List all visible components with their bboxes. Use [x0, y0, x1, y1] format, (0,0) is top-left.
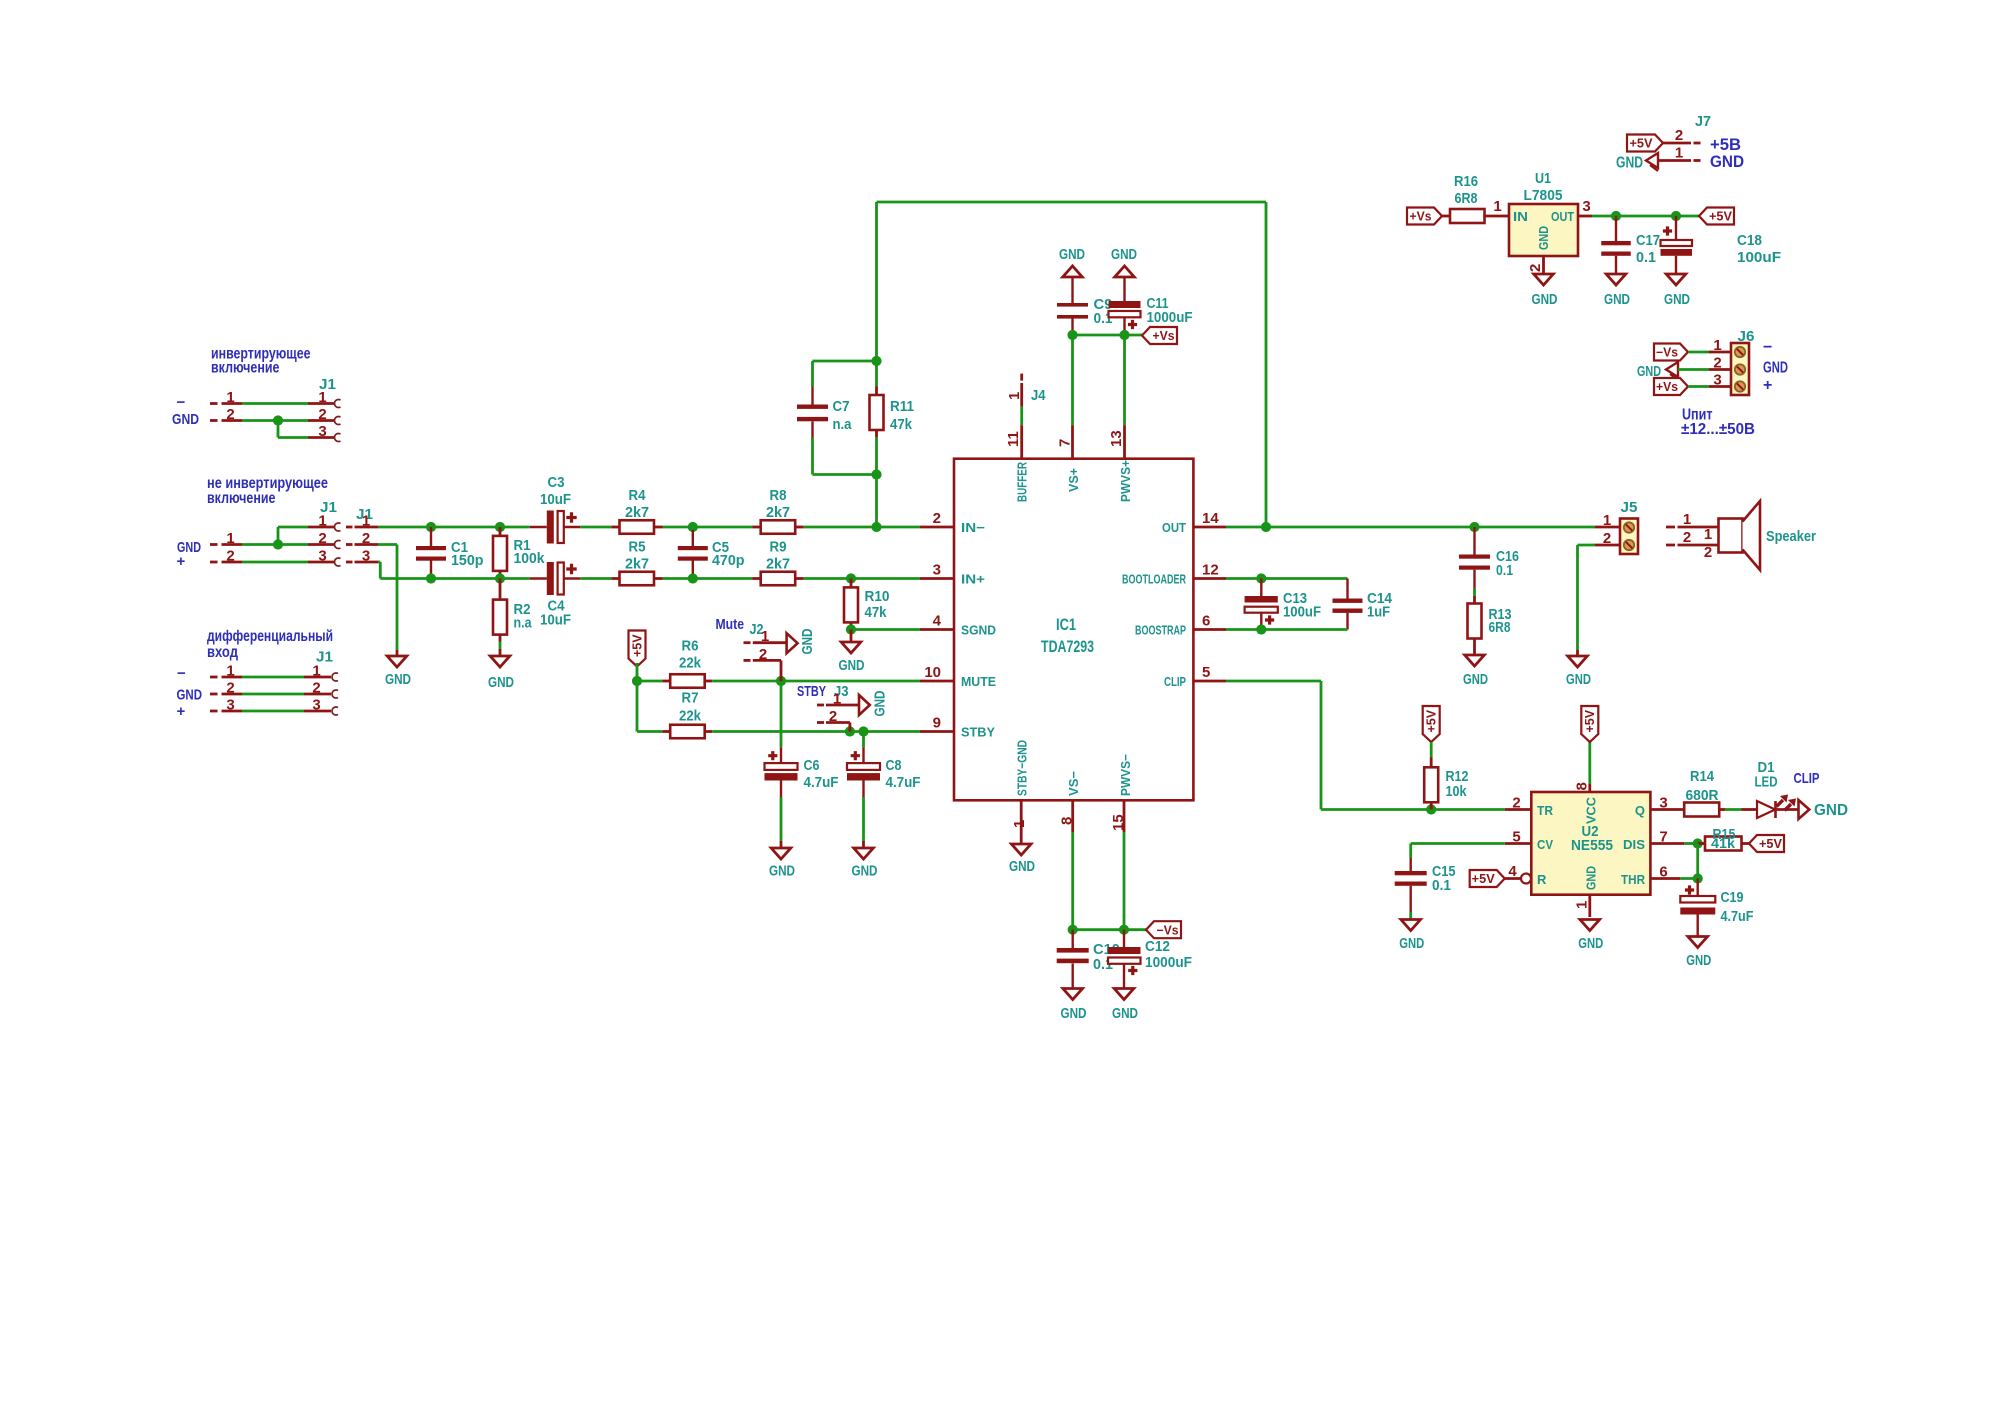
svg-text:470p: 470p	[712, 552, 745, 569]
svg-text:R10: R10	[865, 588, 890, 605]
text инвертирующее включение	[211, 346, 311, 377]
pin 3 OUT wire	[1578, 198, 1699, 216]
junction	[1068, 925, 1078, 935]
pin 2 TR	[1505, 795, 1532, 812]
ground arrow	[787, 628, 816, 654]
capacitor C19	[1680, 879, 1753, 937]
svg-text:PWVS+: PWVS+	[1118, 460, 1133, 502]
pin 7 DIS	[1650, 829, 1697, 846]
ground arrow	[859, 690, 889, 716]
svg-text:n.a: n.a	[514, 615, 532, 632]
svg-text:DIS: DIS	[1623, 837, 1645, 852]
svg-text:2: 2	[318, 530, 326, 547]
power flag +5V	[1749, 835, 1784, 852]
pin 4 R inversion bubble	[1505, 863, 1531, 884]
ground arrow	[1637, 362, 1678, 380]
svg-text:+Vs: +Vs	[1410, 210, 1432, 224]
svg-text:8: 8	[1574, 782, 1591, 790]
junction	[1693, 873, 1703, 883]
connector J1 male pin2	[346, 543, 378, 546]
ground	[1111, 246, 1137, 301]
resistor R15	[1698, 826, 1749, 851]
label GND	[1710, 152, 1744, 171]
svg-text:TR: TR	[1537, 803, 1554, 818]
label plus	[177, 703, 186, 720]
power flag -Vs	[1654, 344, 1688, 361]
svg-text:100uF: 100uF	[1283, 604, 1321, 621]
resistor R5	[611, 539, 662, 586]
svg-text:2: 2	[1603, 530, 1611, 547]
svg-text:1: 1	[1683, 511, 1691, 528]
text дифференциальный вход	[207, 628, 333, 661]
svg-text:−: −	[177, 394, 186, 411]
power flag +5V	[629, 631, 646, 667]
svg-text:1: 1	[226, 663, 234, 680]
capacitor C3	[530, 474, 580, 544]
svg-text:GND: GND	[1763, 360, 1788, 377]
svg-text:13: 13	[1108, 430, 1125, 447]
svg-text:J4: J4	[1031, 387, 1046, 404]
svg-text:R14: R14	[1690, 768, 1714, 785]
svg-text:GND: GND	[1463, 671, 1488, 688]
pin 6 stub	[1135, 613, 1226, 638]
junction	[846, 624, 856, 634]
label minus	[177, 665, 186, 682]
ground	[1059, 246, 1085, 303]
connector J6 pin 2	[1678, 355, 1731, 372]
pin number 3	[318, 548, 326, 565]
svg-text:R: R	[1537, 872, 1547, 887]
svg-text:1000uF: 1000uF	[1147, 309, 1193, 326]
svg-text:Q: Q	[1635, 803, 1645, 818]
connector J6 pin 1	[1688, 337, 1731, 354]
junction	[1261, 522, 1271, 532]
svg-text:GND: GND	[852, 863, 878, 880]
capacitor C1	[416, 527, 484, 579]
ground	[1686, 937, 1711, 970]
svg-text:LED: LED	[1755, 774, 1778, 791]
power flag +5V	[1470, 870, 1505, 887]
svg-text:10uF: 10uF	[540, 612, 571, 629]
ground	[1061, 989, 1087, 1023]
junction	[688, 522, 698, 532]
pin number 3	[226, 697, 234, 714]
pin number 1	[761, 628, 769, 645]
svg-text:C19: C19	[1721, 889, 1744, 906]
svg-text:STBY: STBY	[961, 725, 995, 740]
op-amp IC1 TDA7293 body	[954, 459, 1193, 801]
svg-text:−: −	[177, 665, 186, 682]
resistor R8	[752, 487, 804, 534]
capacitor C9	[1057, 296, 1113, 335]
ground	[1399, 920, 1424, 953]
svg-text:+5V: +5V	[630, 634, 644, 657]
svg-text:GND: GND	[769, 863, 795, 880]
wire IN- row left	[431, 526, 530, 529]
connector J1 male pin3	[346, 561, 378, 564]
svg-text:GND: GND	[1532, 291, 1558, 308]
capacitor C13	[1245, 579, 1321, 630]
svg-text:IN+: IN+	[961, 572, 985, 587]
pin number 2	[312, 680, 320, 697]
svg-text:n.a: n.a	[833, 416, 852, 433]
svg-text:включение: включение	[211, 360, 280, 377]
svg-text:GND: GND	[1686, 952, 1711, 969]
svg-text:+5V: +5V	[1425, 709, 1439, 732]
resistor R16	[1442, 173, 1509, 223]
svg-text:47k: 47k	[865, 604, 887, 621]
wire	[637, 681, 662, 732]
speaker SP1	[1719, 501, 1817, 570]
svg-text:10: 10	[924, 664, 941, 681]
svg-text:2: 2	[1683, 529, 1691, 546]
pin number 2	[226, 406, 234, 423]
svg-text:9: 9	[933, 715, 941, 732]
pin number 1	[833, 691, 841, 708]
power flag +5V	[1423, 706, 1440, 742]
capacitor C17	[1601, 216, 1660, 274]
svg-text:10uF: 10uF	[540, 491, 571, 508]
capacitor C7	[797, 361, 852, 475]
svg-text:2: 2	[1512, 795, 1520, 812]
svg-text:C18: C18	[1737, 232, 1762, 249]
svg-text:вход: вход	[207, 644, 238, 661]
svg-text:GND: GND	[1604, 291, 1630, 308]
label CLIP	[1794, 770, 1820, 787]
junction	[1671, 211, 1681, 221]
wire bootloader	[1226, 577, 1348, 580]
svg-text:GND: GND	[1584, 866, 1599, 890]
ground	[1112, 989, 1138, 1023]
ground	[1009, 844, 1035, 875]
svg-text:+5V: +5V	[1709, 210, 1733, 224]
pin 6 THR	[1650, 864, 1697, 881]
svg-text:100k: 100k	[514, 550, 545, 567]
svg-text:3: 3	[1713, 372, 1721, 389]
svg-text:C8: C8	[886, 757, 902, 774]
ground	[488, 656, 514, 691]
svg-text:10k: 10k	[1446, 783, 1467, 800]
ground	[852, 848, 878, 880]
label STBY	[797, 683, 826, 700]
pin 2 GND	[1527, 256, 1544, 274]
svg-text:Speaker: Speaker	[1766, 528, 1816, 545]
resistor R7	[662, 690, 712, 739]
svg-text:J7: J7	[1695, 113, 1711, 130]
junction	[1469, 522, 1479, 532]
power flag -Vs	[1146, 921, 1181, 938]
pin number 2	[829, 708, 837, 725]
wire	[278, 421, 308, 438]
svg-text:+5V: +5V	[1759, 837, 1783, 851]
svg-text:±12...±50В: ±12...±50В	[1681, 421, 1755, 438]
svg-text:GND: GND	[1566, 671, 1591, 688]
wire	[813, 437, 877, 527]
svg-text:GND: GND	[1112, 1005, 1138, 1022]
connector J6 pin 3	[1688, 372, 1731, 389]
svg-text:GND: GND	[1578, 935, 1603, 952]
svg-text:1: 1	[1704, 526, 1712, 543]
capacitor C11	[1109, 295, 1193, 335]
capacitor C4	[530, 562, 580, 629]
svg-text:2: 2	[829, 708, 837, 725]
pin 4 stub	[920, 613, 996, 638]
wire boostrap	[1226, 628, 1348, 631]
pin 15 PWVS-	[1110, 754, 1133, 930]
svg-text:2: 2	[226, 406, 234, 423]
svg-text:C17: C17	[1636, 232, 1660, 249]
pin 1 GND	[1574, 895, 1591, 917]
wire	[580, 577, 611, 580]
svg-text:1: 1	[226, 530, 234, 547]
connector J1 label	[319, 376, 336, 393]
connector J7 pin 1	[1658, 145, 1701, 162]
wire	[1696, 844, 1699, 879]
svg-text:BUFFER: BUFFER	[1015, 462, 1030, 502]
svg-text:+Vs: +Vs	[1153, 329, 1175, 343]
capacitor C16	[1459, 527, 1519, 604]
wire	[1576, 545, 1579, 656]
connector J1 pin 2 wire	[210, 690, 338, 698]
svg-text:CLIP: CLIP	[1164, 674, 1186, 689]
svg-text:+5V: +5V	[1630, 137, 1654, 151]
svg-text:+: +	[177, 553, 186, 570]
ground	[1532, 274, 1558, 308]
capacitor C5	[678, 530, 745, 579]
svg-text:4: 4	[1508, 863, 1517, 880]
svg-text:1: 1	[318, 513, 326, 530]
regulator U1 L7805	[1509, 170, 1578, 256]
junction	[1256, 624, 1266, 634]
svg-text:1: 1	[1675, 145, 1683, 162]
connector J1 pin 1 wire	[210, 673, 338, 681]
svg-text:GND: GND	[1059, 246, 1085, 263]
junction	[495, 573, 505, 583]
svg-text:1: 1	[1603, 512, 1611, 529]
svg-text:THR: THR	[1621, 872, 1646, 887]
male stub row2	[210, 543, 278, 546]
wire CLIP	[1226, 681, 1505, 810]
svg-text:−Vs: −Vs	[1157, 923, 1179, 937]
pin number 3	[318, 423, 326, 440]
svg-text:−Vs: −Vs	[1656, 346, 1678, 360]
svg-text:1: 1	[1493, 198, 1501, 215]
svg-text:1: 1	[362, 513, 370, 530]
power flag +Vs	[1654, 378, 1688, 395]
svg-text:TDA7293: TDA7293	[1041, 638, 1094, 656]
svg-text:+5V: +5V	[1472, 872, 1496, 886]
svg-text:R8: R8	[770, 487, 787, 504]
junction	[1119, 925, 1129, 935]
junction	[1119, 330, 1129, 340]
svg-text:GND: GND	[172, 411, 199, 428]
svg-text:R7: R7	[682, 690, 699, 707]
label Mute	[716, 616, 745, 633]
wire IN+ row left	[431, 577, 530, 580]
pin 8 VCC	[1574, 742, 1591, 792]
junction	[846, 573, 856, 583]
svg-text:1: 1	[1006, 392, 1023, 400]
svg-text:8: 8	[1059, 817, 1076, 825]
pin 14 stub	[1162, 510, 1226, 535]
pin 12 stub	[1122, 562, 1226, 587]
resistor R13	[1468, 604, 1512, 656]
label GND	[1763, 360, 1788, 377]
svg-text:PWVS−: PWVS−	[1118, 754, 1133, 796]
svg-text:GND: GND	[872, 690, 889, 716]
wire OUT	[1226, 526, 1595, 529]
svg-text:−: −	[1763, 339, 1772, 356]
wire	[663, 526, 693, 529]
junction	[871, 522, 881, 532]
svg-text:R5: R5	[629, 539, 646, 556]
pin number 2	[226, 548, 234, 565]
svg-text:1: 1	[833, 691, 841, 708]
svg-text:3: 3	[1582, 198, 1590, 215]
svg-text:4.7uF: 4.7uF	[804, 774, 839, 791]
svg-text:3: 3	[318, 423, 326, 440]
power flag +5V	[1581, 706, 1598, 742]
svg-text:7: 7	[1659, 829, 1667, 846]
label plus	[1763, 377, 1772, 394]
resistor R11	[870, 387, 915, 438]
svg-text:J5: J5	[1621, 499, 1638, 516]
pin number 1	[1493, 198, 1501, 215]
connector J3 pin 1	[817, 704, 859, 707]
timer U2 NE555 body	[1531, 792, 1650, 895]
svg-text:R15: R15	[1713, 826, 1736, 843]
wire IN- net	[378, 526, 431, 529]
svg-text:GND: GND	[1061, 1005, 1087, 1022]
svg-text:0.1: 0.1	[1636, 249, 1657, 266]
wire GND drop	[378, 545, 397, 657]
junction	[273, 539, 283, 549]
resistor R2	[493, 579, 532, 657]
pin number 2	[318, 530, 326, 547]
svg-text:2: 2	[312, 680, 320, 697]
text не инвертирующее включение	[207, 475, 328, 507]
svg-text:GND: GND	[385, 671, 411, 688]
svg-text:2k7: 2k7	[625, 556, 649, 573]
svg-text:2: 2	[318, 406, 326, 423]
capacitor C6	[765, 681, 839, 848]
junction	[632, 676, 642, 686]
svg-text:1: 1	[1011, 820, 1028, 828]
resistor R6	[637, 638, 712, 688]
male stub row3	[210, 561, 308, 564]
connector J3 label	[834, 683, 849, 700]
svg-text:1: 1	[312, 663, 320, 680]
junction	[1693, 838, 1703, 848]
svg-text:100uF: 100uF	[1737, 249, 1781, 266]
svg-text:2: 2	[1713, 355, 1721, 372]
svg-text:2: 2	[226, 548, 234, 565]
pin number 2	[318, 406, 326, 423]
pin 8 VS-	[1059, 771, 1082, 930]
power flag +Vs	[1407, 208, 1442, 225]
connector J2 label	[750, 621, 764, 638]
svg-text:+Vs: +Vs	[1656, 380, 1678, 394]
wire -Vs node	[1073, 928, 1146, 931]
pin number 3	[362, 548, 370, 565]
svg-text:2: 2	[362, 530, 370, 547]
svg-text:IN: IN	[1513, 209, 1528, 224]
label GND	[177, 687, 203, 704]
svg-text:1: 1	[1574, 901, 1591, 909]
wire SGND	[851, 628, 920, 631]
svg-text:C3: C3	[548, 474, 565, 491]
svg-text:IN−: IN−	[961, 520, 985, 535]
speaker pins	[1666, 511, 1719, 561]
junction	[858, 726, 868, 736]
resistor R10	[844, 579, 890, 630]
label plus	[177, 553, 186, 570]
ground	[1463, 655, 1488, 688]
svg-text:+: +	[1763, 377, 1772, 394]
svg-text:11: 11	[1005, 431, 1022, 447]
svg-text:7: 7	[1057, 439, 1074, 447]
svg-text:4.7uF: 4.7uF	[1721, 908, 1754, 925]
svg-text:R11: R11	[890, 398, 914, 415]
ground	[385, 656, 411, 688]
svg-text:C6: C6	[804, 757, 820, 774]
svg-text:GND: GND	[1664, 291, 1690, 308]
pin number 1	[318, 389, 326, 406]
svg-text:GND: GND	[1616, 155, 1643, 172]
svg-text:OUT: OUT	[1551, 209, 1574, 224]
svg-text:CLIP: CLIP	[1794, 770, 1820, 787]
capacitor C12	[1108, 930, 1192, 989]
svg-text:0.1: 0.1	[1496, 562, 1513, 579]
ground	[839, 630, 865, 675]
svg-text:2: 2	[1527, 264, 1544, 272]
svg-text:2: 2	[226, 680, 234, 697]
svg-text:дифференциальный: дифференциальный	[207, 628, 333, 645]
svg-text:6: 6	[1659, 864, 1667, 881]
svg-text:3: 3	[933, 562, 941, 579]
resistor R14	[1684, 768, 1741, 817]
svg-text:VS+: VS+	[1066, 468, 1081, 492]
wire	[804, 577, 920, 580]
ground	[769, 848, 795, 880]
svg-text:OUT: OUT	[1162, 520, 1186, 535]
connector J1 pin 1 wire	[210, 399, 341, 407]
pin number 1	[226, 530, 234, 547]
svg-text:1000uF: 1000uF	[1145, 954, 1192, 971]
connector J1 label	[356, 506, 373, 523]
capacitor C10	[1057, 930, 1120, 989]
pin 5 CV	[1411, 829, 1532, 859]
pin number 3	[312, 697, 320, 714]
connector J2 pin 1	[744, 641, 787, 644]
svg-text:R9: R9	[770, 539, 787, 556]
pin number 1	[318, 513, 326, 530]
svg-text:22k: 22k	[679, 708, 701, 725]
svg-text:47k: 47k	[890, 416, 912, 433]
svg-text:CV: CV	[1537, 837, 1553, 852]
svg-text:2: 2	[759, 646, 767, 663]
svg-text:GND: GND	[1399, 935, 1424, 952]
connector J5	[1620, 499, 1638, 554]
svg-text:5: 5	[1512, 829, 1520, 846]
pin 5 stub	[1164, 664, 1226, 689]
svg-text:R16: R16	[1454, 173, 1478, 190]
connector J5 pin 2	[1578, 530, 1621, 547]
connector J6 body	[1731, 343, 1749, 395]
svg-text:GND: GND	[1111, 246, 1137, 263]
resistor R1	[493, 527, 545, 579]
svg-text:+: +	[177, 703, 186, 720]
